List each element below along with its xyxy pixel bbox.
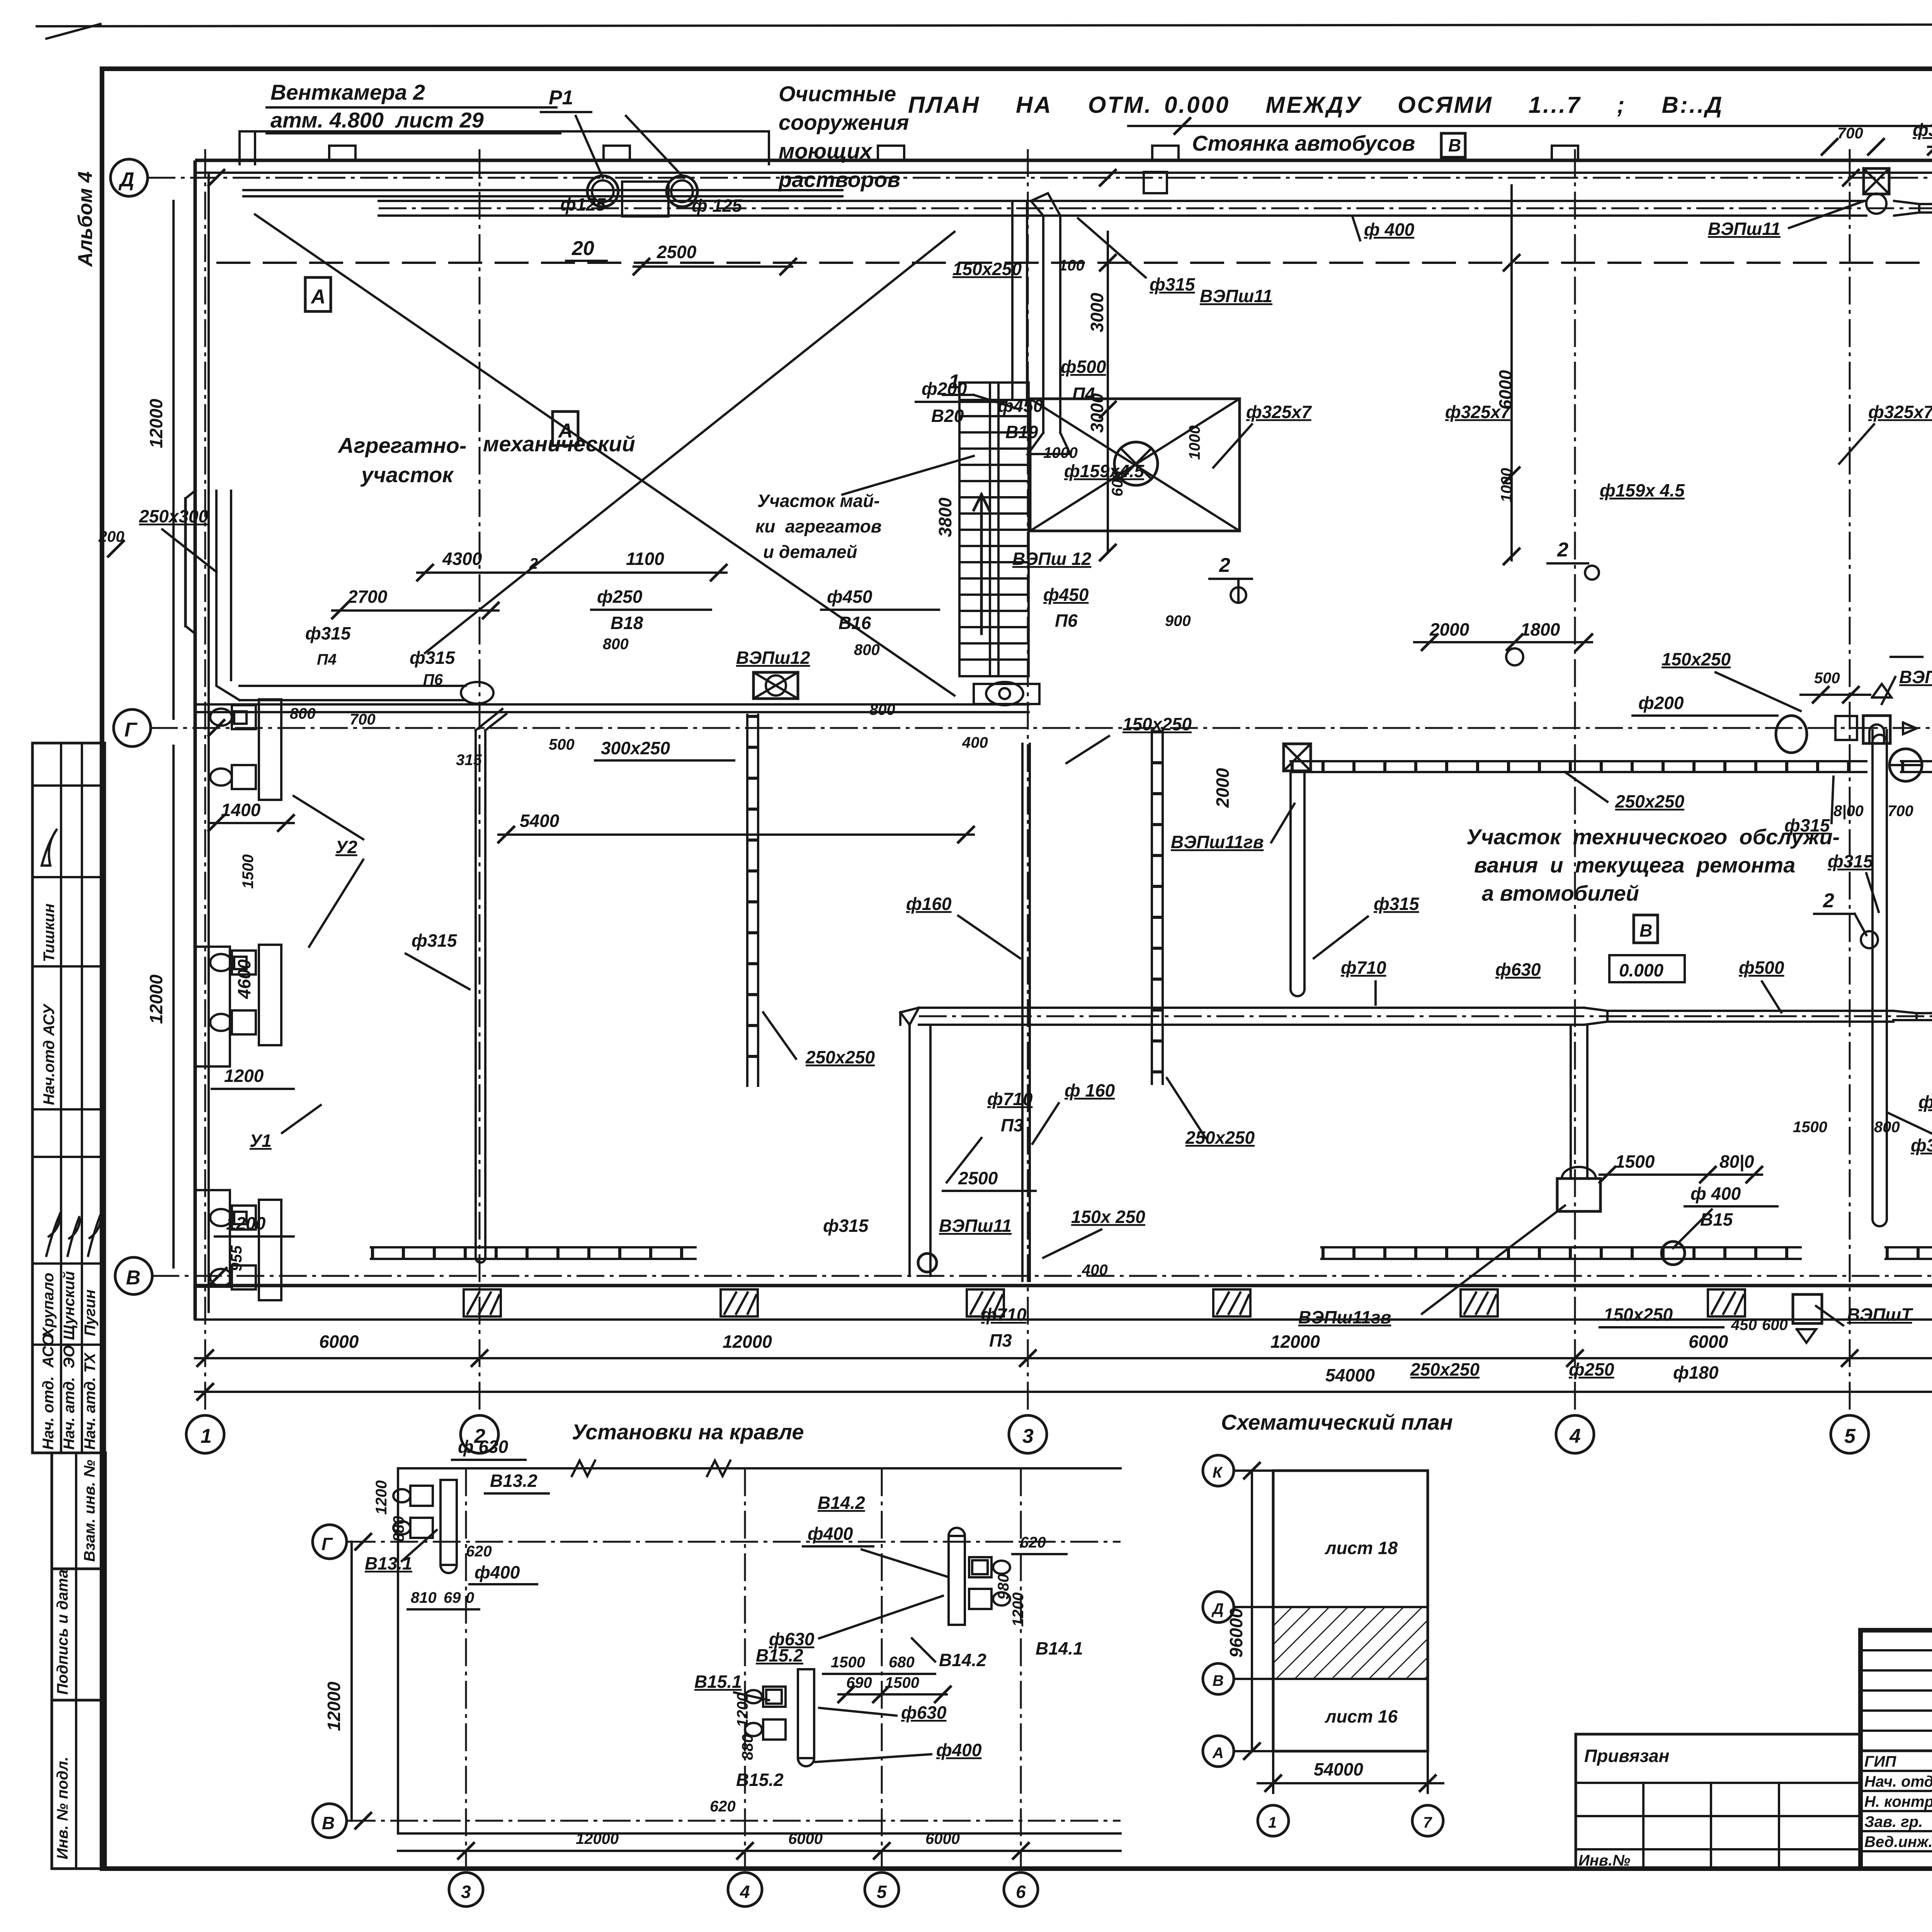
svg-text:250х250: 250х250 [1185,1128,1255,1148]
svg-text:Участок май-: Участок май- [757,491,880,511]
svg-text:Нач. отд.: Нач. отд. [1864,1773,1932,1790]
svg-text:1500: 1500 [885,1674,919,1691]
svg-text:6: 6 [1016,1882,1026,1902]
svg-text:620: 620 [710,1798,736,1815]
svg-text:В14.2: В14.2 [818,1493,865,1513]
svg-text:1400: 1400 [221,800,261,820]
svg-text:12000: 12000 [576,1830,619,1847]
svg-text:ф315: ф315 [1374,894,1420,914]
svg-text:ф315: ф315 [1913,120,1932,140]
svg-text:В14.1: В14.1 [1036,1638,1083,1658]
svg-text:250х250: 250х250 [1615,791,1684,811]
svg-text:1500: 1500 [1793,1119,1827,1136]
svg-text:ф315: ф315 [412,930,457,951]
svg-text:1200: 1200 [734,1693,751,1727]
svg-text:2: 2 [529,555,538,572]
svg-text:сооружения: сооружения [779,110,909,134]
svg-text:2500: 2500 [958,1168,998,1188]
svg-text:ф315: ф315 [410,648,456,668]
svg-text:ки агрегатов: ки агрегатов [755,516,882,536]
svg-text:ГИП: ГИП [1864,1753,1896,1770]
svg-text:1500: 1500 [240,854,257,889]
svg-text:5: 5 [877,1882,887,1902]
svg-text:ВЭПш11: ВЭПш11 [1708,219,1781,239]
svg-text:К: К [1213,1464,1223,1481]
svg-text:ф250: ф250 [1569,1359,1614,1379]
svg-text:П6: П6 [423,671,443,688]
svg-text:Н. контр.: Н. контр. [1864,1793,1932,1810]
svg-text:Щунский: Щунский [61,1271,78,1340]
svg-text:Схематический план: Схематический план [1221,1410,1453,1434]
svg-text:ф400: ф400 [474,1562,520,1582]
svg-text:Зав. гр.: Зав. гр. [1864,1813,1923,1830]
svg-text:В19: В19 [1005,422,1038,442]
svg-text:ВЭПш11: ВЭПш11 [1200,286,1272,306]
svg-text:П4: П4 [1072,384,1095,404]
svg-text:Установки на кравле: Установки на кравле [572,1420,804,1444]
svg-text:6000: 6000 [1689,1332,1728,1352]
svg-text:ф400: ф400 [808,1524,853,1544]
svg-text:0: 0 [466,1589,474,1606]
svg-text:ВЭПшТ: ВЭПшТ [1847,1304,1913,1325]
svg-text:880: 880 [739,1734,756,1760]
svg-text:Нач. отд. АСО: Нач. отд. АСО [40,1334,57,1450]
svg-text:Г: Г [124,719,138,741]
svg-text:А: А [1212,1745,1224,1762]
svg-text:Взам. инв. №: Взам. инв. № [81,1460,98,1562]
svg-text:Венткамера 2: Венткамера 2 [270,80,425,104]
svg-text:В: В [126,1267,141,1289]
svg-text:600: 600 [1762,1316,1788,1333]
svg-text:69: 69 [444,1589,461,1606]
svg-text:ПЛАН НА ОТМ. 0.000 МЕЖДУ: ПЛАН НА ОТМ. 0.000 МЕЖДУ ОСЯМИ 1...7 ; В… [908,92,1723,118]
svg-text:ф500: ф500 [1061,357,1106,377]
svg-text:В16: В16 [838,613,871,633]
svg-text:54000: 54000 [1325,1365,1375,1385]
svg-text:300х250: 300х250 [601,738,670,758]
svg-text:ф315: ф315 [823,1216,869,1236]
svg-text:В: В [322,1813,335,1833]
svg-text:ф710: ф710 [1341,957,1386,978]
svg-text:2000: 2000 [1213,768,1233,808]
svg-text:В13.2: В13.2 [490,1471,537,1491]
svg-text:12000: 12000 [723,1332,772,1352]
svg-text:ф450: ф450 [1043,585,1089,605]
svg-text:400: 400 [1082,1262,1108,1279]
svg-text:Привязан: Привязан [1584,1746,1669,1766]
svg-text:1000: 1000 [1186,425,1203,460]
svg-text:1800: 1800 [1520,619,1560,639]
svg-text:Подпись и дата: Подпись и дата [54,1570,71,1695]
svg-text:ф160: ф160 [906,894,952,914]
svg-text:В15.2: В15.2 [736,1770,784,1790]
svg-text:ф400: ф400 [936,1740,982,1760]
svg-text:Хрупало: Хрупало [40,1273,57,1338]
svg-text:ф 400: ф 400 [1364,219,1415,240]
svg-text:ф500: ф500 [1739,957,1784,978]
svg-text:250х300: 250х300 [139,506,208,526]
svg-text:П3: П3 [989,1330,1012,1350]
svg-text:6000: 6000 [1495,370,1515,410]
svg-text:ф 630: ф 630 [458,1437,509,1457]
svg-text:4: 4 [740,1882,750,1902]
svg-text:Пугин: Пугин [82,1289,99,1336]
svg-text:1: 1 [201,1425,212,1447]
svg-text:ф250: ф250 [597,587,643,607]
svg-text:700: 700 [1888,803,1913,820]
svg-text:Нач. атд. ЭО: Нач. атд. ЭО [61,1345,78,1450]
svg-text:ф315: ф315 [1828,851,1874,871]
svg-text:ВЭПш11гв: ВЭПш11гв [1298,1307,1391,1327]
svg-text:1: 1 [949,371,960,393]
svg-text:6000: 6000 [788,1830,823,1847]
svg-text:В15: В15 [1700,1209,1733,1230]
svg-text:1500: 1500 [831,1654,865,1671]
svg-text:1500: 1500 [1615,1151,1655,1172]
svg-text:1200: 1200 [1010,1592,1027,1627]
svg-text:В18: В18 [611,613,643,633]
svg-text:80|0: 80|0 [1719,1151,1754,1172]
svg-text:250х250: 250х250 [1410,1359,1480,1379]
svg-text:1000: 1000 [1498,468,1515,502]
svg-text:ф125: ф125 [560,194,606,214]
svg-text:6000: 6000 [319,1332,359,1352]
svg-text:500: 500 [1814,670,1840,687]
svg-text:5400: 5400 [520,811,560,831]
svg-text:Нач.отд АСУ: Нач.отд АСУ [41,1003,58,1105]
svg-text:800: 800 [869,701,895,718]
svg-text:П3: П3 [1001,1115,1024,1135]
svg-text:0.000: 0.000 [1619,960,1664,980]
svg-text:1: 1 [1268,1814,1277,1831]
svg-text:лист 16: лист 16 [1325,1706,1398,1726]
svg-text:ф315: ф315 [1918,1092,1932,1112]
svg-text:150х250: 150х250 [1604,1304,1673,1325]
svg-text:ф630: ф630 [1495,959,1541,980]
svg-text:ф315: ф315 [1911,1135,1932,1155]
svg-text:Инв. № подл.: Инв. № подл. [54,1757,71,1859]
svg-text:В: В [1213,1672,1224,1689]
svg-text:680: 680 [889,1654,915,1671]
svg-text:400: 400 [962,734,988,751]
svg-text:ф710: ф710 [981,1304,1027,1325]
svg-text:ф200: ф200 [1638,693,1684,713]
svg-text:500: 500 [549,736,575,753]
svg-text:участок: участок [360,463,454,487]
svg-text:В13.1: В13.1 [365,1553,412,1573]
svg-text:У2: У2 [335,837,357,857]
svg-text:2: 2 [1219,554,1230,577]
svg-text:2500: 2500 [656,242,697,262]
svg-text:3800: 3800 [935,497,955,537]
svg-text:12000: 12000 [146,975,166,1024]
svg-text:ф180: ф180 [1673,1362,1719,1383]
svg-text:ф 400: ф 400 [1690,1184,1741,1204]
svg-text:800: 800 [854,641,880,658]
svg-text:ВЭПш12: ВЭПш12 [736,648,810,668]
svg-text:5: 5 [1844,1425,1856,1447]
svg-text:и деталей: и деталей [763,542,857,562]
svg-text:В: В [1448,135,1461,155]
svg-text:Альбом 4: Альбом 4 [74,171,97,267]
svg-text:А: А [310,286,326,308]
svg-text:А: А [558,420,573,442]
svg-text:ВЭПш 12: ВЭПш 12 [1012,549,1092,569]
svg-text:ф630: ф630 [901,1702,947,1723]
svg-text:Очистные: Очистные [779,82,896,106]
svg-text:Стоянка автобусов: Стоянка автобусов [1192,131,1415,155]
svg-text:1200: 1200 [373,1480,390,1515]
svg-text:Инв.№: Инв.№ [1578,1852,1630,1869]
svg-text:800: 800 [1874,1119,1900,1136]
svg-text:315: 315 [456,752,482,769]
svg-text:Вед.инж.: Вед.инж. [1864,1833,1932,1850]
svg-text:а втомобилей: а втомобилей [1482,881,1639,905]
svg-text:В14.2: В14.2 [939,1650,986,1670]
svg-text:700: 700 [350,711,376,728]
svg-text:12000: 12000 [146,399,166,448]
svg-text:54000: 54000 [1314,1759,1363,1779]
svg-text:ф315: ф315 [305,623,351,643]
svg-text:880: 880 [390,1516,407,1542]
svg-text:12000: 12000 [324,1682,344,1731]
svg-text:4: 4 [1569,1425,1581,1447]
svg-text:1100: 1100 [626,549,664,569]
svg-text:100: 100 [1059,257,1085,274]
svg-text:Г: Г [321,1534,333,1554]
svg-text:2700: 2700 [347,587,388,607]
svg-text:У1: У1 [250,1131,272,1151]
svg-text:ф710: ф710 [987,1089,1033,1109]
svg-text:8|00: 8|00 [1833,803,1864,820]
svg-text:Д: Д [118,168,134,191]
svg-text:ф315: ф315 [1150,274,1196,294]
svg-text:700: 700 [1837,125,1863,142]
svg-text:В: В [1639,920,1652,940]
svg-text:ВЭПш11: ВЭПш11 [939,1216,1012,1236]
svg-text:растворов: растворов [778,167,900,192]
svg-text:ВЭПш11гв: ВЭПш11гв [1171,832,1264,852]
svg-text:96000: 96000 [1226,1608,1246,1658]
svg-text:620: 620 [1020,1534,1046,1551]
svg-text:ф325х7: ф325х7 [1246,402,1312,422]
svg-text:ф325х7: ф325х7 [1868,402,1932,422]
svg-text:Участок технического обслужи: Участок технического обслужи- [1466,825,1840,849]
svg-text:1200: 1200 [224,1066,264,1086]
svg-text:4300: 4300 [442,549,482,569]
svg-text:ф450: ф450 [827,587,872,607]
svg-text:P1: P1 [549,87,573,109]
svg-text:Нач. атд. ТХ: Нач. атд. ТХ [82,1352,99,1450]
svg-text:В15.1: В15.1 [694,1672,742,1692]
svg-text:800: 800 [290,705,316,722]
svg-text:4600: 4600 [234,959,254,999]
svg-text:Агрегатно-: Агрегатно- [337,433,466,457]
svg-text:В15.2: В15.2 [756,1645,803,1665]
svg-text:ВЭПшТ: ВЭПшТ [1899,667,1932,687]
svg-text:800: 800 [603,636,629,653]
svg-text:вания и текущега ремонта: вания и текущега ремонта [1474,853,1795,877]
svg-text:7: 7 [1423,1814,1432,1831]
svg-text:810: 810 [411,1589,437,1606]
svg-text:П6: П6 [1055,611,1078,631]
svg-text:ф159х4.5: ф159х4.5 [1064,461,1145,481]
svg-text:ф 125: ф 125 [692,196,743,216]
svg-text:3000: 3000 [1087,293,1107,332]
svg-text:Д: Д [1211,1600,1224,1617]
svg-text:620: 620 [466,1543,492,1560]
svg-text:12000: 12000 [1270,1332,1320,1352]
svg-text:лист 18: лист 18 [1325,1538,1398,1558]
svg-text:150х250: 150х250 [1662,649,1731,669]
svg-text:ф159х 4.5: ф159х 4.5 [1600,480,1685,500]
svg-text:атм. 4.800 лист 29: атм. 4.800 лист 29 [270,108,484,132]
svg-text:20: 20 [571,237,594,260]
svg-text:2: 2 [1557,539,1568,561]
svg-text:3: 3 [1022,1425,1034,1447]
svg-text:ф 160: ф 160 [1065,1080,1115,1100]
svg-text:6000: 6000 [925,1830,960,1847]
svg-text:П4: П4 [317,651,337,668]
svg-text:250х250: 250х250 [805,1047,875,1067]
svg-text:моющих: моющих [779,139,873,163]
svg-text:Тишкин: Тишкин [41,903,58,962]
svg-text:450: 450 [1731,1316,1757,1333]
svg-text:900: 900 [1165,612,1191,629]
svg-text:150х 250: 150х 250 [1071,1207,1145,1227]
svg-text:3: 3 [461,1882,471,1902]
